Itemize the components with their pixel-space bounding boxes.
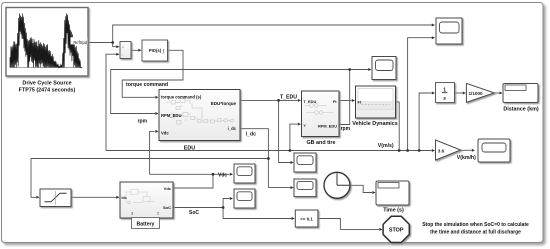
svg-text:i_dc: i_dc	[228, 126, 237, 131]
svg-text:torque command: torque command	[126, 82, 168, 88]
svg-text:the time and distance at full: the time and distance at full discharge	[430, 230, 521, 236]
svg-text:rpm: rpm	[138, 119, 148, 125]
svg-text:-: -	[122, 53, 123, 57]
svg-text:RefSpd: RefSpd	[73, 40, 87, 45]
svg-text:Battery: Battery	[137, 221, 155, 227]
svg-text:V(km/h): V(km/h)	[457, 155, 476, 161]
svg-text:torque command (s): torque command (s)	[161, 94, 202, 99]
svg-text:i_dc: i_dc	[246, 132, 256, 138]
svg-text:Distance (km): Distance (km)	[503, 106, 539, 112]
svg-text:Vdc: Vdc	[161, 131, 169, 136]
svg-text:Vdc: Vdc	[164, 186, 172, 191]
svg-text:Vdc: Vdc	[218, 173, 227, 179]
svg-text:<= 0.1: <= 0.1	[300, 216, 313, 221]
svg-text:V(m/s): V(m/s)	[378, 143, 394, 149]
svg-text:Time (s): Time (s)	[383, 207, 404, 213]
svg-text:s: s	[443, 96, 446, 102]
svg-text:2: 2	[157, 212, 159, 216]
svg-text:SoC: SoC	[189, 210, 199, 216]
svg-text:STOP: STOP	[389, 227, 404, 233]
svg-text:rpm: rpm	[341, 126, 351, 132]
svg-text:RPM_EDU: RPM_EDU	[318, 124, 337, 129]
svg-text:Stop the simulation when SoC=0: Stop the simulation when SoC=0 to calcul…	[422, 222, 529, 228]
svg-text:Vehicle Dynamics: Vehicle Dynamics	[352, 121, 398, 127]
svg-text:Drive Cycle Source: Drive Cycle Source	[22, 81, 71, 87]
svg-text:RPM_EDU: RPM_EDU	[161, 113, 181, 118]
svg-text:T_EDU: T_EDU	[280, 95, 297, 101]
svg-text:T_EDU: T_EDU	[304, 99, 317, 104]
svg-text:idc: idc	[122, 196, 127, 200]
svg-text:+: +	[122, 45, 124, 49]
svg-text:3.6: 3.6	[438, 148, 445, 153]
svg-text:EDU: EDU	[184, 146, 195, 152]
svg-text:PID(s): PID(s)	[149, 48, 162, 53]
svg-text:SoC: SoC	[163, 205, 171, 210]
svg-text:3: 3	[131, 212, 133, 216]
svg-text:EDU*torque: EDU*torque	[211, 101, 237, 106]
svg-text:GB and tire: GB and tire	[306, 140, 335, 146]
svg-text:FTP75 (2474 seconds): FTP75 (2474 seconds)	[19, 87, 76, 93]
svg-text:1/1000: 1/1000	[469, 91, 483, 96]
